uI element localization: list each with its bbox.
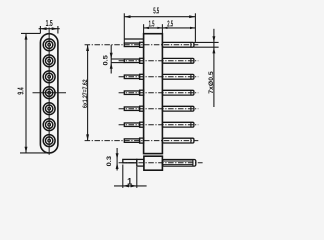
pin row 5 — [119, 106, 199, 111]
contact hole 6 — [43, 119, 55, 131]
contact detail insulator section — [144, 156, 163, 170]
svg-text:9.4: 9.4 — [17, 87, 26, 94]
dimension 6x1.27=7.62 (pin pitch) — [82, 45, 89, 141]
connector body front view (stadium outline) — [40, 34, 58, 153]
contact detail flat tail — [123, 159, 137, 162]
dimension 0.3 (tail thickness) — [106, 148, 119, 171]
pin row 2 — [119, 58, 199, 63]
svg-text:5.5: 5.5 — [153, 6, 159, 15]
dimension 9.4 (front view height) — [17, 33, 50, 152]
dimension chain 1.5 / 2.5 — [144, 20, 196, 29]
extension lines top dimensions — [124, 13, 195, 42]
contact hole 1 — [43, 39, 55, 51]
vertical centerline front view — [48, 28, 50, 155]
svg-text:1.5: 1.5 — [149, 20, 155, 29]
svg-text:1.5: 1.5 — [46, 19, 53, 28]
insulator body side view — [144, 34, 163, 154]
pin row 4 — [119, 90, 199, 95]
contact hole 4 — [43, 87, 55, 99]
dimension 0.5 (tail width) — [103, 45, 125, 74]
contact detail shoulder — [137, 159, 144, 166]
svg-text:0.5: 0.5 — [103, 55, 110, 66]
contact hole 5 — [43, 103, 55, 115]
dimension 7x diameter 0.5 (pin dia) — [194, 29, 219, 107]
pin row 7 — [85, 138, 199, 143]
horizontal centerline row 4 — [33, 92, 67, 94]
contact detail centerline — [119, 162, 203, 164]
dimension 1.5 (front view width) — [39, 19, 60, 34]
pin row 3 — [119, 74, 199, 79]
svg-text:7xØ0.5: 7xØ0.5 — [208, 71, 215, 94]
contact hole 3 — [43, 71, 55, 83]
svg-text:2.5: 2.5 — [167, 20, 173, 29]
pin row 1 — [85, 42, 199, 47]
pin row 6 — [119, 122, 199, 127]
contact hole 2 — [43, 55, 55, 67]
dimension 1 (tail length) — [114, 165, 147, 188]
svg-text:0.3: 0.3 — [106, 156, 113, 167]
svg-text:1: 1 — [127, 177, 132, 187]
svg-text:6x1.27=7.62: 6x1.27=7.62 — [82, 79, 89, 108]
contact detail sleeve pin — [162, 160, 195, 167]
dimension 5.5 (overall length) — [124, 6, 195, 18]
rib edge above first tail — [124, 38, 143, 40]
contact hole 7 — [43, 135, 55, 147]
